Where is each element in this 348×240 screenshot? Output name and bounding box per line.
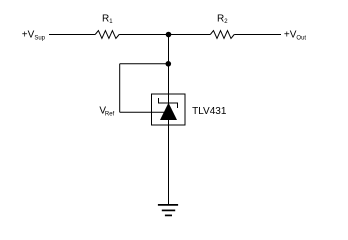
svg-text:TLV431: TLV431 <box>192 106 227 117</box>
svg-text:R1: R1 <box>102 13 113 25</box>
ground <box>158 204 178 206</box>
node A junction dot <box>166 32 172 38</box>
node B junction dot <box>166 61 172 67</box>
resistor R1 <box>95 31 119 39</box>
wire: reference pin into TLV431 <box>120 111 164 113</box>
TLV431 cathode bar <box>159 98 178 108</box>
wire: feedback horizontal from node to left <box>120 63 169 65</box>
wire: feedback vertical down <box>119 64 121 113</box>
wire: R1 to R2 through node <box>119 34 210 36</box>
svg-text:+VSup: +VSup <box>22 29 46 41</box>
svg-text:R2: R2 <box>217 13 228 25</box>
svg-text:VRef: VRef <box>99 106 114 118</box>
svg-text:+VOut: +VOut <box>284 29 307 41</box>
resistor R2 <box>210 31 234 39</box>
TLV431 triangle <box>160 103 177 120</box>
wire: +VSup to R1 <box>49 34 95 36</box>
wire: cathode vertical from node through TLV431 to ground <box>168 35 170 206</box>
wire: R2 to +VOut <box>234 34 281 36</box>
shunt regulator U1 TLV431 body box <box>152 94 186 125</box>
